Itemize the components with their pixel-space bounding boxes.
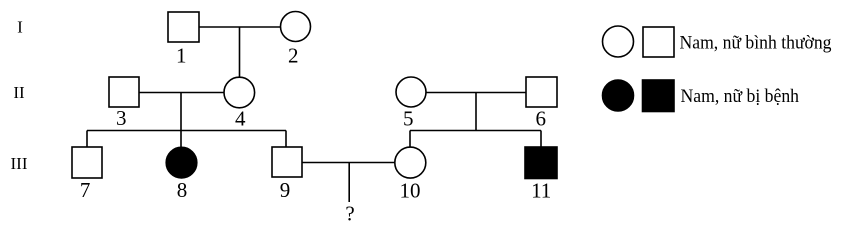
legend: normal female circle — [603, 26, 634, 57]
wire: drop line to individual 11 — [540, 131, 542, 148]
wire: drop line to individual 7 — [86, 131, 88, 148]
individual 6: normal male square — [526, 77, 557, 107]
individual 9: normal male square — [272, 147, 302, 177]
individual 4: normal female circle — [224, 77, 255, 108]
individual 10: normal female circle — [395, 147, 426, 178]
individual 5: normal female circle — [396, 77, 426, 107]
svg-text:1: 1 — [176, 44, 187, 68]
svg-text:I: I — [17, 18, 23, 37]
svg-text:2: 2 — [288, 43, 299, 67]
svg-text:11: 11 — [531, 178, 551, 202]
wire: couple line 3-4 — [139, 92, 225, 94]
wire: couple line 1-2 — [199, 26, 281, 28]
wire: couple line 5-6 — [426, 92, 526, 94]
wire: offspring line from couple 9-10 — [348, 163, 350, 203]
svg-text:5: 5 — [403, 107, 414, 131]
svg-text:III: III — [11, 154, 28, 173]
individual 7: normal male square — [72, 147, 102, 178]
svg-text:Nam, nữ bị bệnh: Nam, nữ bị bệnh — [681, 86, 800, 107]
svg-text:8: 8 — [177, 178, 188, 202]
legend: affected female filled circle — [603, 80, 634, 111]
svg-text:10: 10 — [400, 179, 421, 203]
svg-text:9: 9 — [280, 178, 291, 202]
svg-text:Nam, nữ bình thường: Nam, nữ bình thường — [680, 33, 832, 54]
individual 8: affected female filled circle — [166, 147, 197, 178]
individual 3: normal male square — [109, 77, 139, 107]
wire: descent line from couple 3-4 to individual 8 — [180, 93, 182, 149]
wire: descent line from couple 1-2 to individual 4 — [239, 27, 241, 78]
wire: couple line 9-10 — [302, 162, 395, 164]
wire: drop line to individual 9 — [285, 131, 287, 148]
svg-text:3: 3 — [116, 106, 127, 130]
svg-text:4: 4 — [235, 107, 246, 131]
svg-text:II: II — [13, 83, 25, 102]
svg-text:?: ? — [345, 202, 354, 226]
individual 11: affected male filled square — [525, 147, 557, 179]
wire: sibship line of generation III left — [87, 130, 286, 132]
wire: descent line from couple 5-6 — [475, 93, 477, 131]
legend: normal male square — [643, 27, 674, 57]
wire: drop line to individual 10 — [409, 131, 411, 148]
wire: sibship line of generation III right — [410, 130, 541, 132]
svg-text:6: 6 — [535, 107, 546, 131]
legend: affected male filled square — [643, 80, 675, 112]
individual 2: normal female circle — [281, 12, 311, 42]
svg-text:7: 7 — [80, 178, 91, 202]
individual 1: normal male square — [168, 12, 199, 42]
